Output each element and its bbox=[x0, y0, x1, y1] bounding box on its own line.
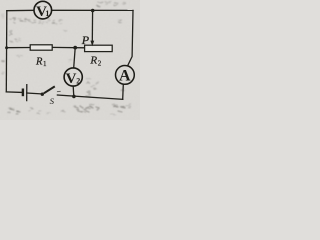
ammeter A bbox=[116, 66, 135, 85]
rheostat R2 bbox=[85, 45, 113, 51]
svg-text:V: V bbox=[66, 71, 77, 87]
node R1-R2 junction bbox=[73, 46, 77, 50]
battery bbox=[23, 84, 27, 101]
voltmeter V2 bbox=[64, 68, 82, 87]
wire V2 stem top bbox=[74, 48, 76, 68]
wire battery right bbox=[27, 92, 41, 95]
node top wiper junction bbox=[91, 9, 95, 13]
svg-text:P: P bbox=[81, 33, 90, 47]
svg-text:A: A bbox=[119, 68, 131, 85]
ghost bleedthrough marks bbox=[2, 1, 131, 115]
wire left vertical bbox=[5, 11, 8, 92]
wire middle left segment bbox=[7, 47, 31, 49]
decorative bleedthrough (bottom) bbox=[10, 92, 125, 112]
wire top left segment bbox=[7, 9, 34, 11]
wire battery left bbox=[6, 91, 21, 94]
resistor R1 bbox=[30, 45, 52, 50]
label R2 bbox=[89, 55, 101, 68]
svg-text:1: 1 bbox=[43, 60, 47, 68]
wire V2 stem bottom bbox=[72, 86, 75, 96]
wire top right segment bbox=[52, 9, 133, 11]
wire right vertical bbox=[128, 10, 133, 65]
node bottom V2 junction bbox=[72, 95, 76, 99]
svg-text:S: S bbox=[50, 96, 55, 106]
svg-text:2: 2 bbox=[98, 60, 102, 68]
svg-text:2: 2 bbox=[76, 76, 80, 85]
wire switch contact tick bbox=[57, 90, 60, 92]
switch S bbox=[41, 86, 55, 96]
node left middle junction bbox=[5, 46, 8, 49]
label R1 bbox=[35, 56, 47, 68]
wire ammeter bottom bbox=[122, 84, 125, 99]
svg-text:R: R bbox=[89, 55, 97, 67]
svg-text:R: R bbox=[35, 56, 43, 67]
wire bottom right segment bbox=[57, 95, 122, 99]
svg-text:1: 1 bbox=[45, 9, 49, 18]
wiper arrow P bbox=[90, 41, 94, 47]
voltmeter V1 bbox=[34, 1, 52, 20]
wire R1 to junction bbox=[52, 46, 84, 48]
paper background bbox=[0, 0, 140, 120]
wire wiper stem bbox=[91, 11, 93, 42]
